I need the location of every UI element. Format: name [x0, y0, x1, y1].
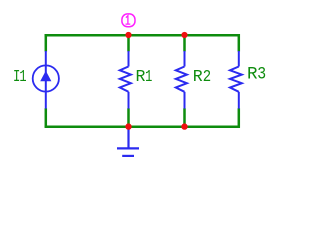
- resistor R1: [120, 51, 131, 109]
- svg-text:1: 1: [19, 67, 26, 86]
- svg-text:3: 3: [257, 65, 266, 85]
- svg-text:R: R: [193, 67, 203, 86]
- ground: [117, 127, 139, 156]
- label R3: [247, 65, 266, 85]
- wire R3 vertical lower stub: [238, 108, 241, 127]
- wire R2 vertical upper stub: [183, 34, 186, 52]
- svg-text:R: R: [136, 67, 146, 86]
- wire R3 vertical upper stub: [238, 34, 241, 52]
- label R1: [136, 67, 153, 86]
- svg-text:1: 1: [145, 67, 152, 86]
- wire top horizontal net 1: [45, 34, 240, 37]
- junction dot top at R2: [181, 32, 187, 38]
- resistor R3: [230, 51, 242, 109]
- junction dot bottom at R1/ground: [125, 123, 131, 129]
- label R2: [193, 67, 211, 86]
- wire R2 vertical lower stub: [183, 108, 186, 127]
- wire R1 vertical lower stub: [127, 108, 130, 127]
- current source I1: [33, 51, 59, 109]
- wire bottom horizontal ground net: [45, 125, 240, 128]
- junction dot bottom at R2: [181, 123, 187, 129]
- label I1: [13, 67, 27, 86]
- junction dot top node 1 at R1: [125, 32, 131, 38]
- wire left vertical lower (from I1): [45, 108, 48, 127]
- wire R1 vertical upper stub: [127, 34, 130, 52]
- resistor R2: [176, 51, 187, 109]
- node 1 bubble: [122, 14, 135, 27]
- svg-text:2: 2: [203, 67, 211, 86]
- wire left vertical upper (to I1): [45, 34, 48, 52]
